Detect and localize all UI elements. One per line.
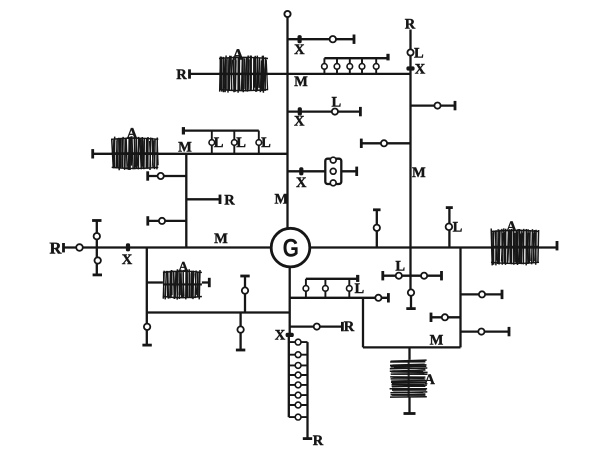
wire main vertical M-line (top section) (286, 17, 288, 230)
svg-text:X: X (415, 62, 426, 78)
wire rheostat rung 6 (289, 394, 308, 396)
rheostat resistance element 5 (295, 382, 301, 388)
lamp lower on left cross (95, 257, 101, 263)
svg-text:R: R (50, 239, 63, 258)
lamp lower on mid cross (237, 326, 243, 332)
svg-text:X: X (294, 42, 305, 58)
switch contact X on cell branch (299, 167, 303, 175)
lamp on center horizontal stub (375, 295, 381, 301)
terminal tick bottom-left vertical (142, 344, 151, 347)
rheostat resistance element 1 (295, 339, 301, 345)
svg-text:M: M (274, 191, 288, 207)
wire lamp drop 5 (top group) (375, 58, 377, 74)
switch contact X (black dash) on branch (298, 35, 302, 43)
cell element middle (330, 168, 336, 174)
svg-text:L: L (236, 135, 246, 151)
terminal tick of center R stub (341, 322, 344, 331)
terminal tick of inward stub (430, 313, 433, 322)
wire lamp drop 1 (bottom group) (305, 279, 307, 298)
svg-text:M: M (412, 165, 426, 181)
wire lamp-group bus bar (bottom, 3 lamps) (306, 278, 358, 280)
terminal tick bottom of mid cross (236, 349, 245, 352)
wire stub left with lamp (y=143) (361, 142, 410, 144)
coil A4 (transformer, right) (491, 228, 539, 265)
svg-text:M: M (294, 74, 308, 90)
lamp on up-stub x=377 (374, 225, 380, 231)
wire branch with switch X and lamp (upper left of vertical) (288, 38, 355, 40)
terminal tick of upper feeder (188, 69, 191, 78)
wire lamp drop 1 (top group) (323, 58, 325, 74)
terminal tick bottom of rheostat (303, 437, 312, 440)
lamp on inward stub (442, 314, 448, 320)
generator G (271, 228, 310, 267)
svg-text:M: M (178, 140, 192, 156)
terminal nub of left lamp bus (182, 127, 185, 134)
wire bottom-left vertical (146, 248, 148, 346)
terminal tick of X branch (353, 35, 356, 44)
cell device U1 (3-element) (325, 159, 341, 184)
wire rheostat rung 3 (289, 364, 308, 366)
wire stub right with lamp (y=105) (411, 104, 456, 106)
wire lamp drop 2 (left group) (233, 131, 235, 154)
terminal tick of up-stub x=449 (446, 206, 453, 209)
wire branch to cell device (288, 170, 357, 172)
switch contact X on main bus (126, 243, 130, 251)
lamp 2 of left group (232, 140, 238, 146)
wire lamp drop 2 (bottom group) (324, 279, 326, 298)
svg-text:L: L (414, 45, 424, 61)
rheostat resistance element 3 (295, 363, 301, 369)
svg-text:A: A (179, 259, 189, 274)
svg-text:L: L (261, 135, 271, 151)
wire rheostat rung 8 (289, 416, 308, 418)
wire rheostat rung 2 (289, 354, 308, 356)
lamp on left stub (381, 140, 387, 146)
node terminal circle at top of main vertical (284, 11, 290, 17)
wire main vertical below G (289, 265, 291, 335)
wire up-stub x=377 (376, 210, 378, 248)
lamp on stub y=221 (159, 218, 165, 224)
svg-text:M: M (430, 332, 444, 348)
switch contact X on right vertical (406, 66, 414, 70)
terminal tick after coil A3 (208, 278, 211, 287)
wire inward stub with lamp (431, 316, 461, 318)
svg-text:X: X (122, 252, 133, 268)
lamp on up-stub x=449 (446, 224, 453, 231)
svg-text:A: A (424, 372, 435, 388)
wire lamp drop 1 (left group) (211, 131, 213, 154)
wire stub to coil A3 (147, 281, 163, 283)
wire lamp-group bus bar (top, 5 lamps) (324, 57, 388, 59)
svg-text:R: R (224, 192, 235, 208)
wire rheostat rung 4 (289, 374, 308, 376)
lamp 1 of left group (209, 140, 215, 146)
lamp 2 of top group (334, 64, 340, 70)
terminal tick top of mid cross (240, 275, 249, 278)
lamp 1 of top group (322, 64, 328, 70)
wire center horizontal to box (290, 297, 389, 299)
wire lamp drop 3 (left group) (258, 131, 260, 154)
wire up-stub x=449 (448, 208, 450, 248)
wire left feeder horizontal (93, 153, 288, 155)
terminal tick right of main bus (556, 241, 559, 250)
lamp 3 of bottom group (347, 286, 353, 292)
terminal tick below coil A5 (404, 412, 416, 415)
wire upper feeder horizontal (190, 73, 411, 75)
svg-text:R: R (176, 67, 187, 83)
rheostat resistance element 7 (295, 402, 301, 408)
terminal tick of cell branch (355, 167, 358, 176)
svg-text:A: A (506, 219, 517, 235)
lamp right of cross (421, 273, 427, 279)
terminal tick left of lamp cross (381, 271, 384, 280)
svg-text:X: X (294, 113, 305, 129)
terminal tick top of left cross (92, 219, 101, 222)
wire lamp-group bus bar (left, 3 lamps) (183, 129, 258, 131)
lamp on box stub lower (478, 329, 484, 335)
rheostat resistance element 8 (295, 414, 301, 420)
wire main horizontal bus (64, 246, 558, 248)
lamp L in right vertical (407, 49, 413, 55)
terminal tick of box stub upper (501, 290, 504, 299)
wire lamp drop 4 (top group) (361, 58, 363, 74)
terminal tick of L branch (359, 107, 362, 116)
svg-text:G: G (283, 235, 299, 263)
wire stem above coil A5 (408, 347, 410, 359)
terminal tick of up-stub x=377 (373, 208, 381, 211)
wire lamp cross horizontal (383, 275, 442, 277)
svg-text:A: A (232, 47, 244, 64)
wire mid cross upper vertical (244, 276, 246, 313)
lamp 5 of top group (373, 64, 379, 70)
lamp 3 of top group (347, 64, 353, 70)
wire rheostat rung 1 (289, 341, 308, 343)
lamp 2 of bottom group (323, 286, 329, 292)
wire lamp drop 3 (bottom group) (348, 279, 350, 298)
terminal tick of R stub (219, 195, 222, 204)
lamp on stub y=176 (158, 173, 164, 179)
coil A1 (transformer, top) (219, 56, 268, 93)
lamp 1 of bottom group (303, 286, 309, 292)
lamp 3 of left group (256, 140, 262, 146)
wire after coil A3 (202, 281, 209, 283)
terminal tick bottom of left cross (93, 273, 102, 276)
wire box right vertical (459, 248, 461, 348)
wire lamp drop 3 (top group) (349, 58, 351, 74)
coil A5 (transformer, bottom vertical) (390, 360, 428, 397)
wire rheostat rung 5 (289, 384, 308, 386)
wire stub left with lamp (y=176) (148, 175, 187, 177)
coil A2 (transformer, upper left) (112, 136, 159, 170)
lamp on X branch (330, 36, 336, 42)
terminal tick left of main bus (62, 243, 65, 252)
switch contact X below G (286, 333, 294, 337)
wire box stub right lower (461, 330, 510, 332)
terminal tick of left feeder (91, 149, 94, 158)
svg-text:X: X (275, 327, 286, 343)
wire mid cross lower vertical (239, 313, 241, 351)
wire lower-left horizontal (147, 311, 290, 313)
lamp left of cross (396, 273, 402, 279)
svg-text:L: L (214, 135, 224, 151)
svg-text:R: R (313, 433, 324, 449)
wire lamp drop 2 (top group) (336, 58, 338, 74)
wire stem below coil A5 (408, 397, 410, 414)
svg-text:L: L (354, 281, 364, 297)
wire box left vertical (362, 298, 364, 348)
cell element bottom (330, 180, 336, 186)
wire box bottom horizontal (363, 346, 461, 348)
rheostat resistance element 4 (295, 372, 301, 378)
svg-text:L: L (453, 219, 463, 235)
svg-text:L: L (331, 95, 341, 111)
terminal nub of bottom lamp bus (356, 275, 359, 282)
svg-text:R: R (344, 319, 355, 335)
svg-text:X: X (296, 175, 307, 191)
wire branch with switch X and lamp L (y=112) (288, 110, 361, 112)
lamp on right stub (434, 103, 440, 109)
terminal tick of left stub (y=176) (146, 171, 149, 180)
lamp on center R stub (314, 324, 320, 330)
wire stub right to R (y=199) (186, 198, 220, 200)
terminal tick of right stub (454, 101, 457, 110)
cell element top (330, 157, 336, 163)
wire rheostat left rail (288, 335, 290, 417)
terminal tick of left stub (y=143) (360, 139, 363, 148)
terminal tick bottom of right vertical (406, 307, 415, 310)
wire stub to R (center bottom) (290, 325, 343, 327)
terminal tick of center stub (387, 293, 390, 302)
wire right vertical distribution line (409, 30, 411, 290)
rheostat resistance element 2 (295, 352, 301, 358)
lamp upper on mid cross (242, 287, 248, 293)
lamp upper on left cross (94, 233, 100, 239)
wire box stub right upper (461, 293, 503, 295)
wire right vertical bottom segment (410, 296, 412, 309)
svg-text:M: M (214, 231, 228, 247)
lamp on box stub upper (479, 291, 485, 297)
terminal tick of left stub (y=221) (146, 216, 149, 225)
wire M-junction vertical (185, 154, 187, 248)
coil A3 (transformer, lower left) (163, 269, 202, 299)
wire stub left with lamp (y=221) (148, 220, 187, 222)
svg-text:A: A (127, 126, 138, 142)
wire rheostat right rail (306, 342, 308, 439)
terminal tick right of lamp cross (440, 271, 443, 280)
lamp on main bus left (76, 244, 83, 251)
lamp in bottom-left vertical (144, 324, 150, 330)
wire left cross vertical (96, 221, 98, 275)
lamp in right vertical below cross (408, 289, 414, 295)
terminal nub of top lamp bus (386, 54, 389, 61)
lamp on L branch (332, 109, 338, 115)
terminal tick of box stub lower (508, 327, 511, 336)
lamp 4 of top group (359, 64, 365, 70)
switch contact X on L branch (298, 107, 302, 115)
rheostat resistance element 6 (295, 392, 301, 398)
wire rheostat rung 7 (289, 404, 308, 406)
